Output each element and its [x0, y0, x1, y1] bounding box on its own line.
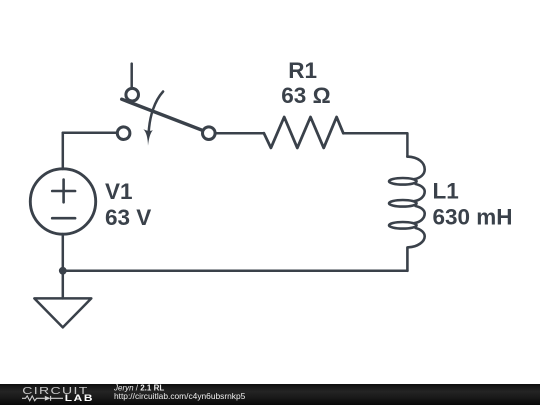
wire: resistor to top-right corner and down [343, 133, 407, 156]
svg-text:L1: L1 [433, 179, 459, 204]
svg-text:http://circuitlab.com/c4yn6ubs: http://circuitlab.com/c4yn6ubsrnkp5 [114, 391, 246, 401]
svg-text:63 V: 63 V [105, 205, 151, 230]
svg-text:630 mH: 630 mH [433, 204, 513, 229]
junction dot node [59, 267, 67, 275]
switch SW1 right terminal circle [203, 127, 216, 140]
wire: top-left horizontal from corner to switch left terminal [63, 132, 118, 135]
voltage source V1 circle [30, 169, 95, 234]
wire: switch right terminal to resistor [215, 132, 264, 135]
svg-text:R1: R1 [288, 58, 317, 83]
wire: left vertical from corner down to V1 top [62, 133, 65, 169]
ground symbol triangle [34, 298, 91, 327]
svg-text:63 Ω: 63 Ω [281, 83, 330, 108]
switch SW1 arrowhead [143, 129, 153, 145]
inductor L1 coil [389, 157, 425, 271]
switch SW1 blade [122, 99, 207, 132]
V1 plus sign [52, 180, 75, 203]
svg-text:V1: V1 [105, 179, 133, 204]
logo squiggle resistor and diode [22, 396, 63, 401]
switch SW1 left terminal circle [117, 127, 130, 140]
resistor R1 zigzag [264, 117, 343, 148]
footer bar [0, 384, 540, 405]
switch SW1 vertical stub [130, 64, 133, 89]
switch SW1 arrow arc [149, 92, 163, 133]
V1 minus sign [52, 217, 75, 220]
switch SW1 top terminal circle [126, 88, 139, 101]
wire: V1 bottom to junction [62, 234, 65, 271]
svg-text:LAB: LAB [65, 394, 94, 403]
wire: junction down to ground [62, 271, 65, 299]
wire: bottom horizontal [63, 270, 408, 273]
